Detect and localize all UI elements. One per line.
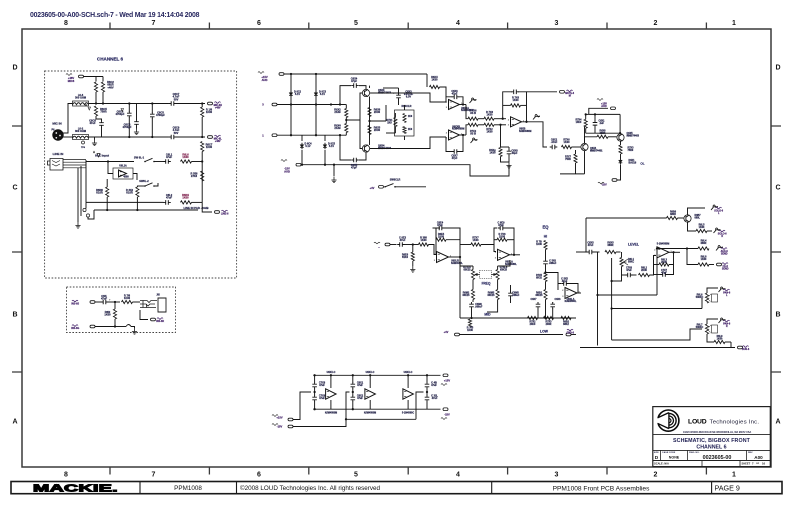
frame zone ticks left/right [12,126,781,372]
title block outline [653,407,771,467]
svg-text:LINE IN: LINE IN [53,152,64,156]
gnd C6C4 [136,126,138,129]
svg-text:NJM4580M: NJM4580M [325,412,337,415]
input hot rail [277,104,345,106]
probe pan lower [719,320,721,323]
svg-text:47uF: 47uF [432,397,438,400]
capacitor C6C5 4700pF [151,112,153,119]
gnd R6E6 [410,266,415,272]
svg-text:2: 2 [508,119,510,121]
capacitor C6C6 4700pF [128,111,130,118]
svg-text:+: + [109,298,111,302]
svg-text:B: B [775,312,780,319]
resistor R7X3 emitter [619,145,622,154]
svg-text:1K0: 1K0 [408,129,413,131]
svg-text:1K00: 1K00 [206,145,213,149]
svg-text:1: 1 [732,20,736,27]
svg-text:680L: 680L [695,216,701,219]
zener D6C3 5.1V [314,93,318,96]
svg-text:2K00: 2K00 [374,110,381,114]
wire to M terminal [527,91,558,93]
svg-text:1K00: 1K00 [564,141,571,144]
svg-text:47uF: 47uF [101,297,107,301]
mic cold rail wire [89,136,169,138]
svg-text:AUD: AUD [284,169,290,173]
svg-text:D: D [655,455,659,461]
terminal EQ bus right [566,333,571,336]
svg-text:2: 2 [495,252,497,254]
svg-text:PAGE 9: PAGE 9 [715,484,740,493]
svg-text:20K0: 20K0 [530,323,536,326]
terminal +15V right [439,374,442,376]
svg-text:REV.: REV. [748,452,753,454]
svg-text:50V: 50V [174,97,179,101]
terminal mic hot out [208,102,213,105]
svg-text:SHEET: SHEET [742,461,751,465]
resistor R6X6 2K00 [368,108,371,117]
wire XLR pin3 to L6-2 [63,136,73,138]
svg-text:68K2: 68K2 [563,323,569,326]
transistor Q6X5 PNP [617,134,624,141]
resistor R6X7b series [468,123,478,126]
svg-text:75R0: 75R0 [565,158,571,161]
svg-text:LEVEL: LEVEL [628,243,639,247]
svg-text:1K00: 1K00 [490,152,497,155]
svg-text:47uF: 47uF [588,244,594,247]
svg-text:+15V: +15V [444,379,450,383]
svg-text:+48V: +48V [215,140,221,143]
svg-text:47uF: 47uF [166,196,172,200]
svg-text:INS-6R: INS-6R [156,320,164,323]
opamp U6SLA [498,249,510,260]
capacitor C7X9 47uF [314,395,316,402]
svg-text:INS-6G: INS-6G [71,327,79,330]
wire bias to Q collector [619,114,621,133]
ground insert [132,328,137,334]
wire feed vertical left [586,218,587,252]
terminal insert in [90,301,95,304]
svg-text:63K15: 63K15 [463,268,471,271]
svg-text:0023605-00: 0023605-00 [703,455,732,461]
probe U6XB out [533,117,535,120]
resistor R6X2 vertical [136,187,139,197]
svg-text:4: 4 [456,20,460,27]
wire C6X4 loop [340,86,351,105]
svg-text:LOW: LOW [540,330,549,334]
svg-text:16220 WOOD-RED ROAD NE WOODIN: 16220 WOOD-RED ROAD NE WOODINVILLE, WA 9… [683,431,751,434]
capacitor C5X6 .068uF [545,259,547,266]
+15V supply label top left [258,72,264,74]
probe B [471,140,473,143]
svg-text:C: C [12,185,17,192]
svg-text:C: C [775,185,780,192]
wire HI chain to opamp [546,273,559,284]
resistor R556 27K6 [201,171,204,181]
-15V supply label bottom left [281,160,287,162]
input cold rail [277,134,345,136]
resistor R6B2 rail [561,316,571,319]
svg-text:47pF: 47pF [498,224,504,227]
power bottom rail [313,408,440,410]
wire collectors junction [368,120,370,122]
svg-text:2K00: 2K00 [374,128,381,132]
svg-text:3: 3 [555,20,559,27]
mic hot rail wire [89,103,169,105]
terminal line pad out [202,202,212,212]
svg-text:INS-6S: INS-6S [71,302,79,305]
svg-text:HI-Z Input: HI-Z Input [95,154,109,158]
wire rail verticals [290,74,292,105]
capacitor C6E9 47pF [498,227,506,229]
terminal OL out [612,179,617,182]
power top rail [313,374,440,376]
svg-text:SIZE: SIZE [654,452,659,454]
feedback top rail [503,92,512,119]
resistor R6C8 1K00 [201,104,203,108]
wire cap to resistor [108,301,120,303]
svg-text:NJM4580M: NJM4580M [452,128,464,131]
resistor R7X2 rail [528,316,538,319]
svg-text:SCALE: N/A: SCALE: N/A [654,461,669,465]
svg-text:U10R: U10R [126,191,133,195]
svg-text:1K0: 1K0 [408,116,413,118]
probe Q6B1 [711,207,713,210]
bias bottom rail [586,132,620,134]
svg-text:.068uF: .068uF [549,262,557,265]
bottom rail wire [301,164,386,166]
zener D6C4 5.1V [300,145,304,148]
MID freq pot right [496,270,499,280]
svg-text:C6X6: C6X6 [555,298,562,301]
wires power terminals [293,392,311,420]
svg-text:C6X7: C6X7 [531,298,538,301]
svg-text:AUD: AUD [262,78,268,82]
signal gnd A2 [121,109,124,112]
svg-text:750R: 750R [100,110,106,114]
resistor R7X1 [394,118,397,127]
svg-text:-15V: -15V [277,425,283,429]
wire resistor to jack [133,301,141,303]
svg-text:2: 2 [562,290,564,292]
wire R6L1 to right rail [192,161,203,163]
capacitor C6C8 47uF [101,121,103,128]
svg-text:U6XX-C: U6XX-C [366,371,375,374]
feedback loop B wires [446,137,453,152]
svg-text:R6XCLR: R6XCLR [401,105,411,108]
svg-text:6: 6 [257,20,261,27]
svg-text:47uF: 47uF [166,155,172,159]
svg-text:1K00: 1K00 [487,130,494,133]
svg-text:47uF: 47uF [400,239,406,242]
svg-text:47pF: 47pF [562,280,568,283]
insert bottom terminal [72,325,78,327]
resistor R6M2 63K15 [471,290,474,300]
footer bar outline [11,482,782,494]
svg-text:47uF: 47uF [357,384,363,387]
svg-text:LINE-6: LINE-6 [221,212,229,215]
opamp U6XB [511,117,522,127]
svg-text:6K32: 6K32 [536,276,542,279]
wire stage A to summing [466,105,468,119]
svg-text:2K49: 2K49 [334,110,341,114]
svg-text:4700pF: 4700pF [156,113,165,117]
wire bias terminal to rail [589,108,608,114]
svg-text:63K15: 63K15 [487,294,495,297]
wire rail drop to R6XX [426,74,428,87]
resistor R6X7a series [468,117,478,120]
svg-text:GND-6: GND-6 [566,331,574,334]
svg-text:1K00: 1K00 [182,155,189,159]
resistor R6N6 vertical [106,187,109,197]
MID freq pot left [471,270,474,280]
svg-text:300 OHM: 300 OHM [75,96,86,100]
svg-text:SW 6L-1: SW 6L-1 [134,155,145,159]
capacitor C6X6 low [552,302,554,309]
svg-text:FREQ: FREQ [482,282,491,286]
feedback loop A wires [446,97,453,102]
probe A [470,100,472,103]
svg-text:47uF: 47uF [431,384,437,387]
svg-text:US B: US B [470,112,476,115]
svg-text:1K00: 1K00 [513,99,520,102]
svg-text:SEND: SEND [721,252,728,255]
svg-text:47pF: 47pF [437,224,443,227]
svg-text:1: 1 [732,472,736,479]
svg-text:.1uF: .1uF [599,122,604,125]
svg-text:-15V: -15V [444,413,450,417]
capacitor C6X8 33pF [508,149,510,156]
insert input net label [72,300,78,302]
bias supply net label [597,99,603,101]
svg-text:2: 2 [446,102,448,104]
svg-text:47uF: 47uF [89,121,95,125]
bottom rail wire [94,209,198,211]
zener D6C2 5.1V [289,93,293,96]
diode D6X1 [620,154,622,159]
EQ bottom bus wire [460,334,564,336]
svg-text:1K00: 1K00 [467,329,473,332]
svg-text:200R: 200R [546,323,552,326]
capacitor C6M5 [510,291,512,298]
svg-text:AUD: AUD [601,105,607,108]
mid rail Q collectors [369,97,371,146]
capacitor C5X5 feedback HI [561,283,569,285]
long bus wires block D [597,252,599,346]
resistor R7X4 10K0 bias [584,119,587,128]
right rail vertical [201,157,203,202]
wire resistors to mic rail [95,92,97,104]
transistor Q6B1 [684,215,691,222]
svg-text:A00: A00 [754,455,763,460]
svg-text:LOUD: LOUD [688,419,707,426]
svg-text:47uF: 47uF [626,269,632,272]
svg-text:3: 3 [446,107,448,109]
wire phantom to resistors [84,76,104,78]
resistor R6X5 2K00 [368,126,371,135]
terminal insert return [151,318,156,321]
svg-text:~: ~ [378,245,380,249]
svg-text:7: 7 [152,20,156,27]
top rail transistor stage [584,127,586,144]
svg-text:TP6: TP6 [81,147,86,149]
svg-text:+4V: +4V [444,330,449,334]
transistor Q6X3 MMBT4403 [362,89,369,96]
wires MID pots top [472,266,474,270]
probe send [716,248,718,251]
svg-text:MIC IN: MIC IN [52,122,61,126]
svg-text:1: 1 [262,134,264,138]
probe pan upper [719,289,721,292]
svg-text:5.1V: 5.1V [295,93,300,96]
svg-text:BUS-6: BUS-6 [742,348,750,351]
svg-text:+4V: +4V [370,186,375,190]
resistor R6Xg vertical [499,148,502,157]
svg-text:500KC: 500KC [696,326,704,329]
svg-text:3: 3 [562,296,564,298]
vertical feed x657 [656,249,658,296]
signal gnd A3 [97,154,100,158]
resistor R6C7 1K00 [201,142,204,152]
transistor Q6X4 output NPN [581,143,588,150]
wire R6C5 to C6C8 [96,116,102,121]
svg-text:5.1V: 5.1V [320,93,325,96]
jack sleeve wires down [77,168,79,222]
svg-text:4700pF: 4700pF [123,125,132,129]
resistor R7X5 6K32 [544,273,547,282]
svg-text:680R: 680R [608,244,614,247]
capacitor C6X7 low [537,302,539,309]
+48V phantom supply net label [66,74,72,76]
svg-text:6: 6 [257,472,261,479]
wire jack tip to switch [86,160,134,162]
svg-text:47pF: 47pF [351,79,357,83]
resistor R6B1 [544,290,547,300]
svg-text:MMBT4403: MMBT4403 [627,134,640,137]
svg-text:3: 3 [434,260,436,262]
svg-text:75R0: 75R0 [628,149,634,152]
title block row4 scale/sheet [702,461,740,467]
resistor R7X7 emitter [574,154,577,163]
svg-text:3: 3 [262,103,264,107]
svg-text:SW6CLR: SW6CLR [390,179,401,182]
svg-text:J6I: J6I [156,294,160,297]
svg-text:SCHEMATIC, BIGBOX FRONT: SCHEMATIC, BIGBOX FRONT [673,438,751,444]
wire level out right [677,251,681,253]
svg-text:8: 8 [64,472,68,479]
svg-text:D: D [775,65,780,72]
output wire U6XB [522,122,548,147]
title block row3 cells [661,450,747,460]
line pad rail [86,201,164,203]
svg-text:5-2N4580C: 5-2N4580C [402,412,414,415]
FREQ dual-gang box [480,271,492,279]
terminal pan out [738,346,743,349]
svg-text:47uF: 47uF [357,397,363,400]
svg-text:10K0: 10K0 [576,121,582,124]
capacitor C6M6 .068uF [471,302,473,309]
capacitor C32L 47uF [426,395,428,402]
feedback loop U6SLA [494,228,497,252]
jack contact wires [63,159,86,161]
svg-text:4700pF: 4700pF [116,112,125,116]
svg-text:4: 4 [456,472,460,479]
wire to Q6X4 base [572,146,581,148]
svg-text:PPM1008 Front PCB Assemblies: PPM1008 Front PCB Assemblies [553,485,650,492]
resistor R6I2 vertical [113,309,116,319]
svg-text:1K00: 1K00 [432,79,439,82]
svg-text:A: A [775,419,780,426]
svg-text:2: 2 [446,133,448,135]
svg-text:U10R: U10R [96,191,103,195]
transistor Q6X4b MMBT4403 [362,145,369,152]
svg-text:7: 7 [152,472,156,479]
capacitor C6X1 bias [594,120,596,127]
svg-text:1K00: 1K00 [206,110,213,114]
svg-text:CHANNEL 6: CHANNEL 6 [97,57,124,62]
svg-text:63K15: 63K15 [462,294,470,297]
wire zeners to bottom rail [301,135,303,141]
resistor R7B HI [544,241,547,250]
svg-text:3: 3 [508,124,510,126]
svg-text:680R: 680R [701,242,707,245]
svg-text:47pF: 47pF [661,271,667,274]
supply rail wire [284,73,427,75]
svg-text:2: 2 [654,250,656,252]
svg-text:47pF: 47pF [452,157,458,160]
power bus lower wire [346,418,416,420]
svg-text:+48V: +48V [107,85,113,89]
terminal +15V [279,73,284,76]
capacitor C6X9 47pF [511,91,519,93]
terminal mic cold out [208,136,213,139]
wire jack return to send terminal [140,310,148,320]
svg-text:33pF: 33pF [512,152,518,155]
terminal phantom power [79,75,84,78]
capacitor C6C4 4700pF [136,120,138,127]
terminal bias +15V [611,107,616,110]
capacitor C8X1 47uF [352,382,354,389]
frame zone ticks top/bottom [110,23,706,475]
svg-text:51K0: 51K0 [402,256,409,259]
svg-text:1K00: 1K00 [182,196,189,200]
svg-text:A: A [85,103,87,107]
CHANNEL 6 dashed boundary box [45,71,237,278]
svg-text:SW6L-2: SW6L-2 [139,179,149,183]
svg-text:U6L1A: U6L1A [119,165,127,168]
gnd summing network [506,162,511,168]
test point TP6 [82,141,85,144]
svg-text:+15V: +15V [276,416,282,420]
resistor R6C5 750 [94,106,97,116]
svg-text:CAGE CODE: CAGE CODE [662,451,676,454]
svg-text:47uF: 47uF [319,384,325,387]
svg-text:NJM4580L: NJM4580L [451,262,463,265]
svg-text:M: M [569,95,571,98]
test point circles [83,208,86,211]
svg-text:27K6: 27K6 [191,174,198,178]
bias top rail [589,113,620,115]
wire Q6X3 base [346,93,362,120]
wire Q6X4 base [360,120,363,149]
terminal M out [560,91,565,94]
svg-text:50KC: 50KC [628,260,634,263]
svg-text:63K15: 63K15 [500,268,508,271]
wire U6SLR out to U6SLA [460,244,471,246]
svg-text:NONE: NONE [669,455,680,459]
opamp U6XXA [449,100,460,110]
level pot R6L1 [620,258,623,267]
svg-text:5-2N4580M: 5-2N4580M [657,243,670,246]
